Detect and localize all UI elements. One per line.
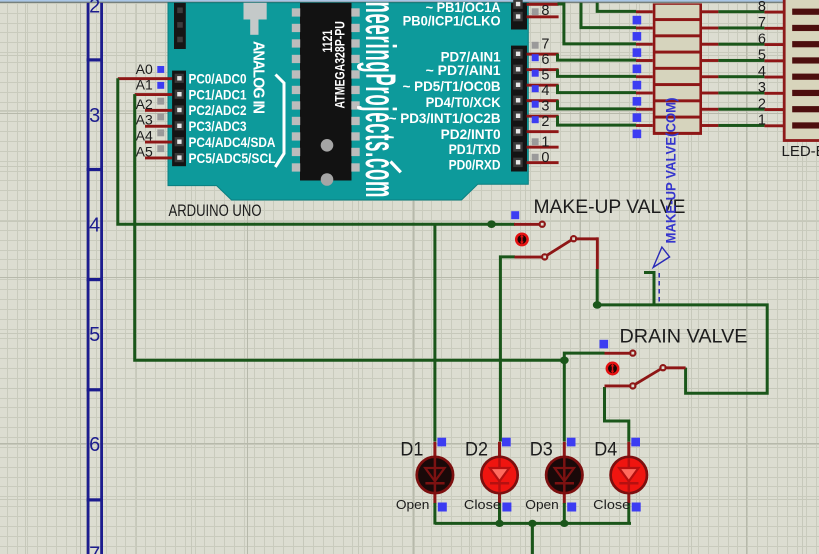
node marker SW2 (600, 340, 609, 349)
svg-text:D4: D4 (594, 439, 617, 461)
wire pin to R row y92.65 (558, 85, 637, 93)
node marker A2 (157, 98, 164, 105)
svg-text:D1: D1 (400, 439, 423, 461)
wire to R2 from above (581, 3, 636, 28)
node marker SW1 (511, 211, 519, 219)
bargraph segment 6 (792, 90, 819, 96)
svg-text:6: 6 (89, 434, 100, 456)
node marker R5 (633, 81, 642, 90)
node marker R3 (633, 48, 642, 57)
digital pin stub y131.3 (527, 130, 559, 133)
wire branch to D1 (433, 224, 436, 441)
wire drain throw to D4 (605, 387, 629, 442)
switch SW1 makeup valve (495, 221, 599, 270)
LED bargraph body (784, 0, 819, 141)
arduino power header (174, 3, 186, 49)
digital pin stub y16.5 (527, 15, 559, 18)
bargraph segment 4 (792, 57, 819, 63)
svg-text:ANALOG IN: ANALOG IN (249, 41, 267, 114)
wire pin8 to R3 (558, 4, 637, 44)
svg-text:PC2/ADC2: PC2/ADC2 (189, 102, 247, 118)
wire R1 to bargraph (718, 10, 764, 13)
resistor R6 leads (636, 92, 653, 95)
svg-text:5: 5 (89, 324, 100, 346)
junction dot makeup out (593, 301, 602, 309)
analog pin header J-A (172, 71, 186, 167)
digital pin stub y146.8 (527, 146, 559, 149)
resistor pack RN1 body (653, 3, 702, 135)
wire pin to R row y108.9 (558, 100, 637, 109)
wire pin to R row y125.15 (558, 116, 637, 125)
svg-text:A3: A3 (136, 112, 153, 128)
svg-text:D2: D2 (465, 439, 488, 461)
node markers D2 (502, 438, 511, 447)
digital pin stub y53.8 (527, 53, 559, 56)
svg-text:2: 2 (758, 96, 766, 112)
switch SW2 drain valve (605, 349, 686, 389)
switch SW2 toggle actuator (607, 363, 618, 374)
wire node marker (532, 101, 539, 108)
svg-text:D3: D3 (530, 439, 553, 461)
wire node marker (532, 54, 539, 61)
terminal dashed line (658, 273, 660, 302)
node marker A1 (157, 82, 164, 89)
digital pin stub y69.3 (527, 68, 559, 71)
LED D2 (481, 442, 517, 525)
svg-text:5: 5 (541, 67, 549, 83)
wire R3 to bargraph (718, 43, 764, 46)
svg-text:~ PD7/AIN1: ~ PD7/AIN1 (426, 62, 501, 78)
bargraph segment 1 (792, 9, 819, 15)
analog group bracket (275, 75, 284, 168)
resistor R1 leads (636, 10, 653, 13)
node marker R8 (633, 130, 642, 139)
svg-text:7: 7 (758, 15, 766, 31)
wire R8 to bargraph (718, 124, 764, 127)
svg-text:4: 4 (541, 83, 549, 99)
svg-text:4: 4 (89, 215, 100, 237)
svg-text:7: 7 (541, 36, 549, 52)
switch SW1 toggle actuator (516, 234, 527, 245)
arduino usb jack (244, 3, 267, 35)
sheet border ruler (87, 0, 103, 554)
top window edge strip (0, 0, 819, 2)
wire bus down (531, 523, 534, 554)
wire terminal down (644, 273, 654, 305)
svg-text:Open: Open (525, 497, 559, 512)
wire A0 to makeup valve (118, 78, 492, 224)
svg-text:PC0/ADC0: PC0/ADC0 (189, 71, 247, 87)
resistor R4 leads (636, 59, 653, 62)
wire R7 to bargraph (718, 108, 764, 111)
resistor R8 leads (636, 124, 653, 127)
LED D1 (417, 442, 453, 525)
wire R5 to bargraph (718, 75, 764, 78)
junction dot bus D2 (495, 520, 503, 527)
wire A1 long horizontal (135, 94, 565, 360)
pin stub A3 (145, 125, 172, 128)
wire node marker (532, 116, 539, 123)
wire R2 to bargraph (718, 26, 764, 29)
svg-text:Open: Open (396, 497, 430, 512)
svg-text:6: 6 (541, 52, 549, 68)
terminal pin symbol (653, 247, 669, 267)
bargraph segment 5 (792, 74, 819, 80)
bargraph segment 3 (792, 41, 819, 47)
svg-text:3: 3 (541, 98, 549, 114)
wire pin to R row y76.4 (558, 69, 637, 76)
pin stub A5 (145, 157, 172, 160)
svg-text:DRAIN VALVE: DRAIN VALVE (620, 326, 748, 348)
svg-text:PC4/ADC4/SDA: PC4/ADC4/SDA (189, 134, 276, 150)
node marker A3 (157, 114, 164, 121)
pin stub A4 (145, 141, 172, 144)
svg-text:4: 4 (758, 64, 766, 80)
svg-text:~ PD3/INT1/OC2B: ~ PD3/INT1/OC2B (389, 110, 501, 126)
svg-text:PC1/ADC1: PC1/ADC1 (189, 86, 247, 102)
node markers D1 (437, 438, 446, 447)
bargraph segment 2 (792, 25, 819, 31)
svg-text:0: 0 (541, 150, 549, 166)
wire pin to R row y60.15 (558, 54, 637, 60)
bargraph segment 7 (792, 106, 819, 112)
LED D4 (611, 442, 647, 525)
svg-text:6: 6 (758, 31, 766, 47)
svg-text:A0: A0 (136, 61, 153, 77)
pin stub A1 (135, 93, 172, 96)
svg-text:PC5/ADC5/SCL: PC5/ADC5/SCL (189, 150, 276, 166)
resistor R2 leads (636, 27, 653, 30)
wire makeup throw to D2 (500, 257, 515, 442)
svg-text:1: 1 (758, 113, 766, 129)
node markers D4 (631, 438, 640, 447)
digital pin header (PD) (511, 46, 527, 172)
svg-text:~ PD5/T1/OC0B: ~ PD5/T1/OC0B (403, 78, 501, 94)
node marker A0 (157, 66, 164, 73)
junction dot A1/drain (560, 357, 569, 365)
wire drain common to D3 (564, 353, 604, 441)
svg-text:8: 8 (758, 0, 766, 15)
svg-text:Close: Close (464, 497, 501, 512)
logo swoosh tail (391, 162, 401, 173)
svg-text:8: 8 (541, 3, 549, 19)
wire R4 to bargraph (718, 59, 764, 62)
node marker R4 (633, 65, 642, 74)
digital pin stub y100.3 (527, 99, 559, 102)
wire R6 to bargraph (718, 91, 764, 94)
ground bus wire (435, 522, 631, 525)
svg-text:PD0/RXD: PD0/RXD (449, 157, 501, 173)
digital pin stub y84.8 (527, 84, 559, 87)
wire makeup common out (597, 269, 767, 393)
svg-text:PD4/T0/XCK: PD4/T0/XCK (426, 94, 501, 110)
svg-text:Close: Close (593, 497, 630, 512)
resistor R5 leads (636, 75, 653, 78)
svg-text:MAKE-UP VALVE(COM): MAKE-UP VALVE(COM) (664, 98, 679, 244)
svg-text:3: 3 (758, 80, 766, 96)
svg-text:5: 5 (758, 48, 766, 64)
svg-text:A5: A5 (136, 143, 153, 159)
digital pin stub y162.3 (527, 161, 559, 164)
node marker R1 (633, 16, 642, 25)
wire node marker (532, 85, 539, 92)
svg-text:2: 2 (89, 0, 100, 17)
node markers D3 (567, 438, 576, 447)
svg-text:1: 1 (541, 134, 549, 150)
node marker R6 (633, 97, 642, 106)
wire to R1 from above (597, 3, 636, 12)
svg-text:A4: A4 (136, 128, 153, 144)
digital pin header top (PB) (511, 0, 527, 30)
svg-text:7: 7 (89, 543, 100, 554)
bargraph segment 8 (792, 122, 819, 128)
arduino U1 board (168, 3, 528, 200)
junction dot bus mid (528, 520, 536, 527)
digital pin stub y115.8 (527, 115, 559, 118)
pin stub A2 (145, 109, 172, 112)
svg-text:3: 3 (89, 105, 100, 127)
node marker A4 (157, 129, 164, 136)
node marker R7 (633, 113, 642, 122)
svg-text:ARDUINO UNO: ARDUINO UNO (169, 202, 262, 220)
svg-text:PD2/INT0: PD2/INT0 (441, 126, 501, 142)
node marker R2 (633, 32, 642, 41)
node marker A5 (157, 145, 164, 152)
ATMEGA328 chip U1 (292, 3, 360, 186)
svg-text:PC3/ADC3: PC3/ADC3 (189, 118, 247, 134)
svg-text:A1: A1 (136, 77, 153, 93)
pin stub A0 (118, 77, 172, 80)
wire node marker (532, 70, 539, 77)
svg-text:PD1/TXD: PD1/TXD (449, 141, 501, 157)
svg-text:A2: A2 (136, 96, 153, 112)
junction dot A0/switch (487, 220, 496, 228)
svg-text:PB0/ICP1/CLKO: PB0/ICP1/CLKO (403, 13, 501, 29)
digital pin stub y4 (527, 3, 559, 6)
resistor R7 leads (636, 108, 653, 111)
LED D3 (546, 442, 582, 525)
svg-text:ATMEGA328P-PU: ATMEGA328P-PU (332, 21, 348, 108)
svg-text:2: 2 (541, 114, 549, 130)
svg-text:LED-BA: LED-BA (782, 143, 819, 160)
junction dot bus D3 (560, 520, 568, 527)
resistor R3 leads (636, 43, 653, 46)
